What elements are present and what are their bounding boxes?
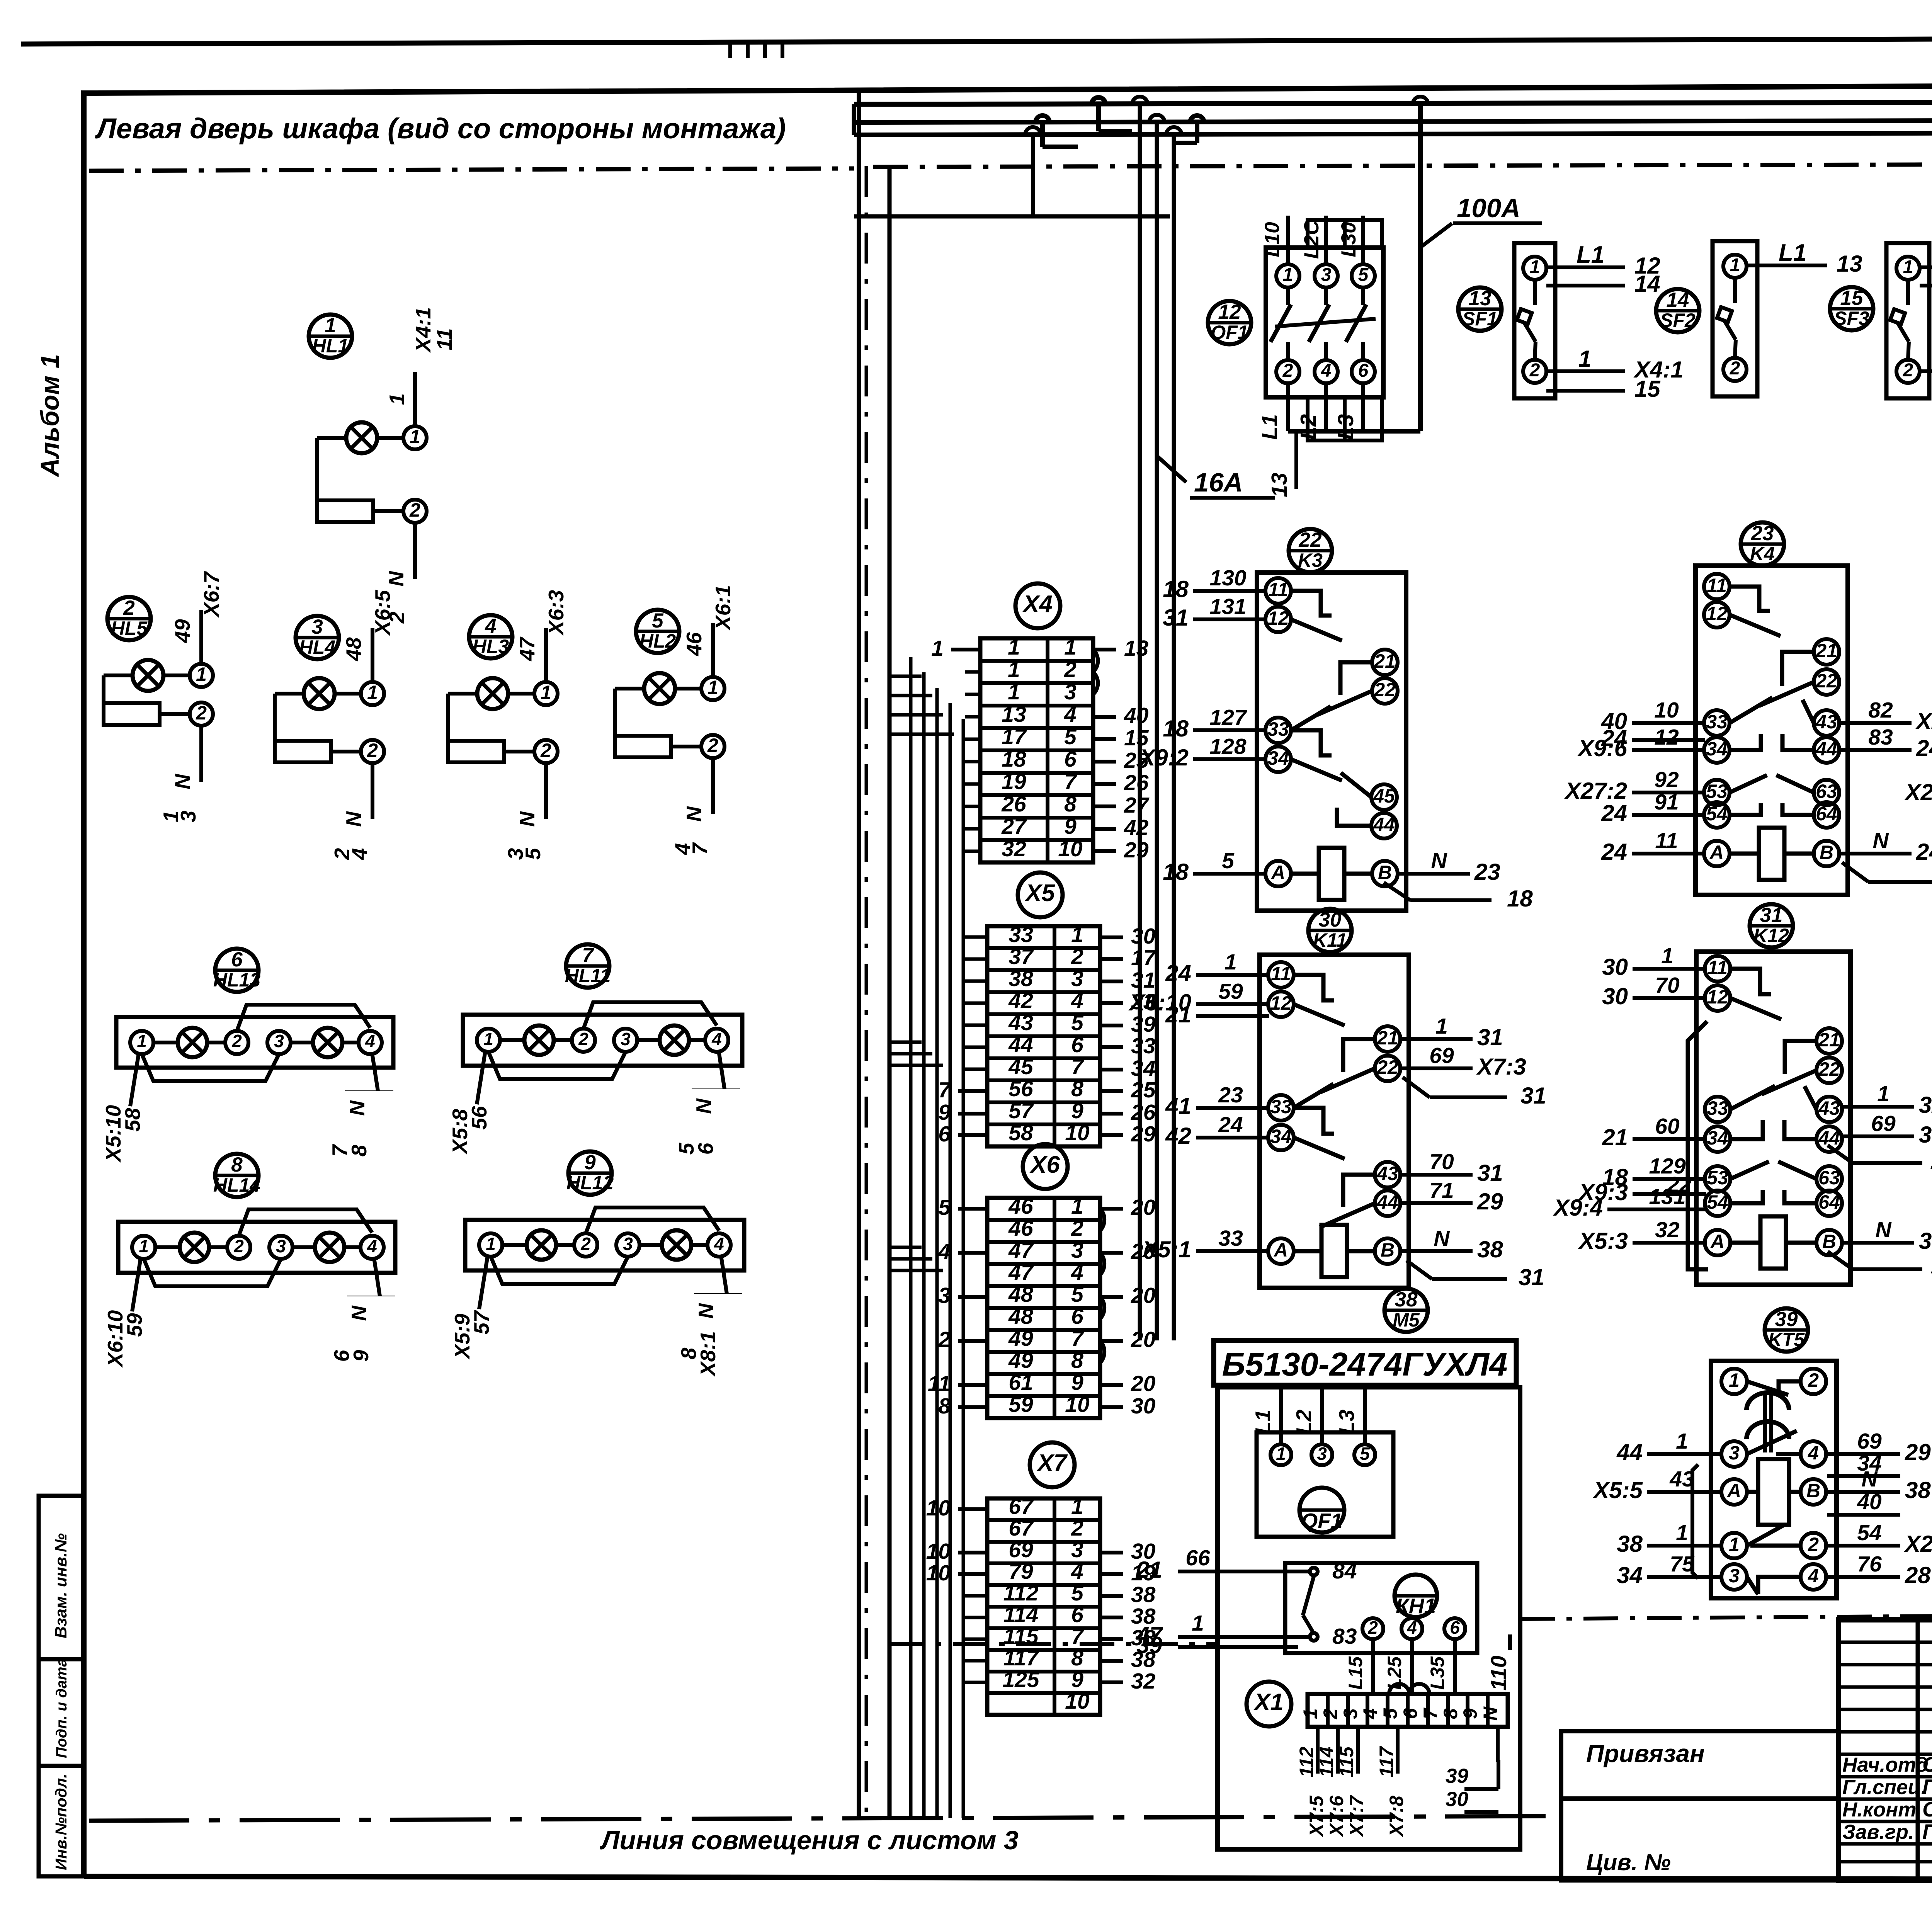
svg-text:12: 12	[1218, 301, 1241, 323]
side stamp box 3	[39, 1766, 84, 1876]
svg-text:1: 1	[541, 682, 551, 703]
svg-text:N: N	[1875, 1218, 1892, 1242]
svg-text:2: 2	[196, 702, 207, 724]
svg-text:2: 2	[231, 1031, 242, 1051]
svg-text:8: 8	[231, 1153, 243, 1176]
svg-text:44: 44	[1616, 1439, 1643, 1465]
svg-text:21: 21	[1818, 1029, 1840, 1051]
svg-text:33: 33	[1706, 711, 1728, 733]
svg-text:30: 30	[1131, 1394, 1156, 1418]
svg-text:5: 5	[1071, 1581, 1084, 1605]
svg-text:5: 5	[1358, 265, 1369, 285]
relay K12 pins 33 43	[1705, 1097, 1730, 1122]
svg-text:9: 9	[1071, 1667, 1083, 1692]
relay K12 pin A	[1705, 1230, 1730, 1255]
svg-text:125: 125	[1002, 1667, 1039, 1692]
svg-text:2: 2	[1071, 1516, 1083, 1541]
lamp HL3 wire to terminal strip	[544, 628, 548, 682]
relay K4 pins 11 12	[1704, 574, 1730, 599]
relay KT5 pins 3 4	[1721, 1441, 1747, 1467]
svg-text:69: 69	[1857, 1429, 1882, 1454]
svg-text:117: 117	[1003, 1646, 1039, 1670]
lamp block HL13 terminal 4	[359, 1031, 382, 1054]
svg-text:43: 43	[1818, 1097, 1840, 1119]
svg-text:Б5130-2474ГУХЛ4: Б5130-2474ГУХЛ4	[1222, 1346, 1508, 1383]
svg-text:L2C: L2C	[1300, 220, 1323, 259]
relay KT5 box	[1711, 1361, 1837, 1598]
svg-text:B: B	[1378, 862, 1392, 883]
bundle stubs to X5	[965, 935, 987, 939]
QF1 pole 6	[1352, 360, 1375, 383]
extra bus tap hooks left group	[1036, 116, 1049, 122]
title block attachment box	[1561, 1731, 1838, 1799]
QF1 pole 2	[1276, 360, 1299, 383]
svg-text:10: 10	[1065, 1392, 1090, 1417]
QF1 pole 1	[1276, 264, 1299, 287]
lamp block HL14 terminal 3	[269, 1236, 293, 1259]
QF1 crossbar	[1275, 319, 1376, 327]
svg-text:2: 2	[540, 740, 551, 761]
svg-text:30: 30	[1602, 954, 1628, 980]
svg-text:46: 46	[682, 632, 706, 656]
svg-text:48: 48	[1008, 1282, 1033, 1307]
svg-text:X6:7: X6:7	[199, 571, 223, 618]
svg-text:2: 2	[1367, 1617, 1378, 1638]
feeder wire L2	[1155, 122, 1159, 1340]
svg-text:Привязан: Привязан	[1586, 1740, 1705, 1767]
svg-text:1: 1	[1071, 1194, 1083, 1219]
svg-text:14: 14	[1634, 271, 1660, 297]
svg-text:18: 18	[1002, 747, 1026, 772]
lamp HL4 resistor	[275, 692, 304, 696]
svg-text:3: 3	[1321, 265, 1332, 285]
lamp block HL14 terminal 2	[227, 1236, 250, 1259]
svg-text:29: 29	[1905, 1439, 1931, 1465]
svg-text:X5:1: X5:1	[1141, 1236, 1191, 1262]
svg-text:X8:1: X8:1	[696, 1331, 720, 1377]
svg-text:7: 7	[688, 842, 712, 855]
svg-text:X5:5: X5:5	[1592, 1477, 1643, 1503]
relay K12 pin B	[1816, 1230, 1842, 1255]
switch SF1 pin 1	[1523, 257, 1546, 280]
lamp block HL11 left wire	[477, 1051, 485, 1104]
relay K12 pins 11 12	[1705, 956, 1730, 981]
switch SF3 top wires	[1920, 265, 1932, 269]
svg-text:54: 54	[1706, 803, 1728, 825]
svg-text:4: 4	[1808, 1442, 1819, 1464]
lamp block HL12 lamp b	[662, 1230, 691, 1260]
relay K3 coil	[1291, 872, 1319, 876]
switch SF3 designator	[1830, 287, 1873, 330]
svg-text:110: 110	[1486, 1655, 1511, 1690]
relay K4 pins 21 22	[1814, 639, 1839, 665]
unit M5 designator	[1384, 1289, 1428, 1332]
svg-text:L3: L3	[1333, 414, 1358, 440]
lamp block HL11 box	[463, 1015, 742, 1066]
svg-text:21: 21	[1136, 1557, 1162, 1583]
svg-text:4: 4	[485, 615, 496, 638]
svg-text:A: A	[1270, 862, 1285, 883]
svg-text:31: 31	[1760, 904, 1783, 927]
svg-text:5: 5	[521, 847, 545, 860]
relay K12 pins 53 63	[1705, 1166, 1730, 1192]
feeder tap hook L1	[1132, 97, 1148, 104]
lamp HL2 neutral wire	[711, 758, 715, 814]
svg-text:24: 24	[1165, 960, 1191, 986]
relay K11 pin B	[1375, 1238, 1400, 1264]
lamp HL5	[133, 660, 163, 691]
lamp HL5 designator	[107, 597, 151, 640]
svg-text:58: 58	[1009, 1121, 1033, 1145]
svg-text:8: 8	[1071, 1348, 1083, 1373]
unit M5 KH1 designator circle	[1395, 1575, 1437, 1617]
terminal strip X1 designator	[1247, 1682, 1291, 1726]
svg-text:Парамонова: Парамонова	[1922, 1820, 1932, 1844]
lamp block HL11 bottom bypass wire	[488, 1052, 626, 1079]
lamp block HL13 bottom bypass wire	[142, 1054, 279, 1081]
lamp block HL14 designator	[215, 1154, 259, 1197]
svg-text:17: 17	[1002, 724, 1027, 749]
relay K3 designator	[1289, 529, 1332, 572]
switch SF1 top wires	[1546, 265, 1625, 269]
terminal strip X4 table	[980, 638, 1093, 862]
svg-text:23: 23	[1751, 522, 1774, 545]
svg-text:QF1: QF1	[1301, 1509, 1343, 1533]
svg-text:3: 3	[1071, 966, 1083, 991]
svg-text:44: 44	[1008, 1032, 1033, 1057]
svg-text:X4: X4	[1022, 591, 1053, 617]
lamp block HL13 designator	[215, 949, 259, 992]
svg-text:26: 26	[1001, 792, 1026, 816]
svg-text:59: 59	[122, 1313, 146, 1337]
svg-text:34: 34	[1707, 1127, 1728, 1149]
svg-text:7: 7	[582, 944, 594, 967]
terminal strip X1 bottom stubs	[1316, 1727, 1320, 1774]
svg-text:1: 1	[1071, 922, 1083, 947]
svg-text:34: 34	[1131, 1056, 1155, 1081]
relay K12 designator	[1750, 904, 1793, 947]
svg-text:N: N	[342, 811, 366, 827]
svg-text:HL3: HL3	[473, 636, 509, 657]
svg-text:4: 4	[711, 1029, 722, 1049]
svg-text:N: N	[170, 774, 194, 789]
svg-text:КН1: КН1	[1396, 1594, 1436, 1618]
svg-text:2: 2	[1064, 657, 1077, 682]
terminal strip X6 right labels	[1100, 1207, 1123, 1211]
switch SF3 box	[1886, 243, 1929, 398]
svg-text:1: 1	[325, 314, 336, 337]
title block left grid rows	[1838, 1641, 1932, 1644]
svg-text:X7:3: X7:3	[1476, 1054, 1526, 1080]
relay K12 group2 contacts	[1730, 1086, 1775, 1109]
svg-text:3: 3	[1340, 1708, 1361, 1719]
bus line 3	[854, 132, 1932, 135]
relay K11 21 stub	[1399, 1037, 1473, 1041]
svg-text:4: 4	[365, 1031, 375, 1051]
svg-text:2: 2	[580, 1234, 591, 1254]
title block main outline	[1838, 1620, 1932, 1880]
svg-text:3: 3	[276, 1236, 286, 1256]
svg-text:B: B	[1806, 1480, 1820, 1502]
circuit breaker QF1 designator	[1208, 301, 1251, 344]
lamp block HL13 lamp a	[178, 1028, 207, 1057]
svg-text:1: 1	[1192, 1611, 1204, 1636]
svg-text:1: 1	[1064, 635, 1077, 660]
svg-text:1: 1	[1276, 1444, 1286, 1464]
svg-text:9: 9	[349, 1350, 373, 1362]
svg-text:X9:4: X9:4	[1553, 1195, 1603, 1221]
svg-text:34: 34	[1617, 1562, 1643, 1588]
svg-text:21: 21	[1815, 640, 1837, 662]
svg-text:N: N	[692, 1098, 716, 1114]
dash-dot separator panel	[873, 164, 1932, 167]
svg-text:L1: L1	[1257, 414, 1282, 440]
svg-text:6: 6	[1071, 1032, 1083, 1057]
svg-text:L3: L3	[1335, 1410, 1359, 1434]
svg-text:1: 1	[1225, 950, 1237, 975]
svg-text:2: 2	[1730, 358, 1740, 379]
svg-text:2: 2	[707, 735, 718, 756]
svg-text:1: 1	[1676, 1429, 1688, 1454]
QF1 pole 5	[1352, 264, 1375, 287]
svg-text:27: 27	[1001, 814, 1027, 839]
svg-text:127: 127	[1209, 705, 1247, 730]
svg-text:12: 12	[1706, 603, 1728, 624]
lamp block HL12 designator	[568, 1151, 612, 1195]
svg-text:131: 131	[1209, 594, 1246, 619]
svg-text:28: 28	[1905, 1562, 1931, 1588]
svg-text:K3: K3	[1298, 549, 1323, 571]
relay K4 pins 34 44	[1704, 737, 1730, 763]
unit M5 KH1 pole 6	[1444, 1618, 1465, 1639]
title underline dash-dot left	[89, 168, 854, 171]
svg-text:X6:1: X6:1	[711, 585, 735, 631]
svg-text:45: 45	[1373, 785, 1395, 807]
lamp block HL13 terminal 3	[267, 1031, 291, 1054]
svg-text:84: 84	[1332, 1559, 1357, 1583]
svg-text:29: 29	[1477, 1189, 1503, 1214]
lamp HL1 terminal 1	[377, 436, 402, 440]
relay K11 43 44 stubs	[1399, 1173, 1473, 1177]
relay K11 pins 43 44	[1375, 1162, 1400, 1187]
svg-text:39: 39	[1446, 1765, 1468, 1787]
svg-text:K4: K4	[1750, 543, 1775, 565]
relay K11 designator	[1308, 909, 1352, 952]
svg-text:1: 1	[483, 1029, 493, 1049]
QF1 top terminal tabs	[1308, 220, 1345, 248]
svg-text:HL11: HL11	[565, 965, 611, 986]
svg-text:22: 22	[1376, 1056, 1398, 1078]
svg-text:7: 7	[1071, 1326, 1084, 1351]
svg-text:15: 15	[1840, 287, 1864, 310]
svg-text:12: 12	[1270, 992, 1292, 1014]
door wire bundle	[909, 657, 913, 1818]
lamp HL4 wire to terminal strip	[371, 628, 374, 682]
svg-text:K12: K12	[1753, 925, 1789, 946]
relay K4 left stubs	[1632, 721, 1705, 725]
svg-text:N: N	[1431, 849, 1447, 873]
svg-text:33: 33	[1009, 922, 1033, 947]
feeder tap hook L2	[1149, 115, 1165, 122]
feeder wire 100A	[1418, 104, 1423, 431]
terminal strip X5 left stubs	[958, 1089, 987, 1093]
svg-text:13: 13	[1469, 287, 1492, 310]
svg-text:1: 1	[1729, 1534, 1740, 1555]
svg-text:31: 31	[1131, 968, 1155, 993]
svg-text:A: A	[1709, 842, 1724, 863]
lamp HL3	[477, 678, 508, 709]
relay K3 pins 33 34	[1265, 718, 1291, 743]
svg-text:N: N	[515, 811, 539, 827]
svg-text:11: 11	[1707, 575, 1727, 596]
svg-text:X7: X7	[1036, 1450, 1068, 1476]
switch SF2 pin 2	[1723, 358, 1747, 381]
svg-text:HL12: HL12	[566, 1172, 614, 1194]
lamp block HL13 terminal 2	[225, 1031, 248, 1054]
terminal strip X6 left stubs	[958, 1207, 987, 1211]
svg-text:B: B	[1820, 842, 1833, 863]
svg-text:47: 47	[515, 636, 539, 662]
svg-text:6: 6	[1450, 1617, 1460, 1638]
lamp HL1 designator	[309, 315, 352, 358]
relay K11 box	[1260, 955, 1409, 1288]
svg-text:N: N	[345, 1100, 369, 1116]
svg-text:SF2: SF2	[1660, 310, 1696, 331]
relay KT5 timer symbol	[1747, 1393, 1789, 1410]
lamp block HL13 box	[116, 1017, 393, 1068]
svg-text:3: 3	[1729, 1442, 1740, 1464]
svg-text:L1: L1	[1779, 240, 1806, 266]
svg-text:8: 8	[1064, 792, 1077, 816]
svg-text:48: 48	[342, 637, 366, 662]
unit M5 KH1 contact 83	[1310, 1633, 1318, 1641]
lamp block HL11 top bypass wire	[583, 1002, 717, 1029]
lamp block HL12 box	[465, 1220, 744, 1270]
svg-text:N: N	[347, 1305, 371, 1321]
svg-text:38: 38	[1395, 1288, 1418, 1311]
svg-text:64: 64	[1816, 803, 1837, 825]
svg-text:24: 24	[1601, 800, 1627, 826]
relay K11 pins 21 22	[1375, 1026, 1400, 1052]
relay K3 left stubs	[1193, 589, 1267, 593]
svg-text:45: 45	[1008, 1054, 1034, 1079]
svg-text:3: 3	[621, 1029, 631, 1049]
svg-text:6: 6	[231, 948, 243, 971]
svg-text:Цив. №: Цив. №	[1586, 1849, 1671, 1875]
lamp block HL14 left wire	[132, 1258, 141, 1311]
svg-text:21: 21	[1376, 1027, 1398, 1049]
lamp HL4 designator	[296, 616, 339, 659]
svg-text:Альбом 1: Альбом 1	[36, 354, 65, 478]
relay K4 box	[1696, 566, 1848, 895]
door bottom coincidence dash line	[89, 1816, 1561, 1821]
svg-text:24: 24	[1218, 1112, 1243, 1137]
svg-text:21: 21	[1602, 1124, 1628, 1150]
svg-text:SF3: SF3	[1834, 308, 1869, 329]
svg-text:L2: L2	[1296, 414, 1321, 440]
svg-text:N: N	[682, 806, 706, 822]
bus end hooks on frame top	[728, 44, 732, 58]
lamp block HL13 right wires	[372, 1053, 378, 1091]
lamp block HL12 terminal 1	[479, 1233, 502, 1257]
svg-text:1: 1	[1877, 1082, 1889, 1106]
svg-text:Левая дверь шкафа (вид со с: Левая дверь шкафа (вид со стороны монтаж…	[95, 112, 786, 145]
terminal strip X7 left stubs	[958, 1507, 987, 1511]
svg-text:59: 59	[1009, 1392, 1033, 1417]
svg-text:1: 1	[486, 1234, 496, 1254]
relay KT5 pins 3b 4b	[1721, 1564, 1747, 1590]
svg-text:2: 2	[1071, 1216, 1083, 1241]
bus left end connector	[852, 104, 856, 135]
svg-text:40: 40	[1124, 703, 1149, 728]
svg-text:5: 5	[1379, 1708, 1401, 1719]
terminal strip X6 designator	[1023, 1144, 1068, 1189]
svg-text:60: 60	[1655, 1114, 1680, 1139]
svg-text:64: 64	[1818, 1191, 1840, 1213]
svg-text:39: 39	[1131, 1012, 1156, 1037]
svg-text:1: 1	[1729, 1369, 1740, 1391]
relay K11 22 stubs	[1399, 1066, 1473, 1070]
svg-text:34: 34	[1270, 1126, 1292, 1147]
unit M5 KH1 contact 84	[1310, 1568, 1318, 1575]
lamp HL3 neutral wire	[544, 763, 548, 819]
svg-text:L1: L1	[1251, 1410, 1275, 1434]
svg-text:19: 19	[1002, 769, 1026, 794]
svg-text:56: 56	[467, 1106, 491, 1130]
svg-text:4: 4	[1064, 702, 1077, 727]
svg-text:18: 18	[1163, 716, 1189, 742]
relay K3 right stubs	[1396, 872, 1470, 876]
terminal strip X4 designator	[1015, 583, 1060, 628]
relay K3 B second stub	[1384, 883, 1410, 900]
svg-text:11: 11	[928, 1371, 951, 1396]
100A label	[1420, 223, 1452, 247]
svg-text:24: 24	[1916, 735, 1932, 761]
lamp block HL11 terminal 3	[614, 1029, 637, 1052]
unit M5 outer box	[1218, 1387, 1520, 1849]
svg-text:Инв.№подл.: Инв.№подл.	[52, 1774, 70, 1870]
lamp HL2 resistor	[615, 687, 644, 690]
svg-text:24: 24	[1930, 1148, 1932, 1174]
terminal strip X7 right labels	[1100, 1551, 1123, 1554]
svg-text:41: 41	[1165, 1093, 1191, 1119]
title block left grid verticals	[1916, 1620, 1920, 1880]
svg-text:5: 5	[1071, 1282, 1084, 1307]
svg-text:59: 59	[1218, 979, 1243, 1004]
relay K12 group3 contacts	[1730, 1162, 1769, 1179]
svg-text:42: 42	[1008, 988, 1033, 1013]
svg-text:33: 33	[1270, 1096, 1292, 1117]
svg-text:X4:1: X4:1	[411, 307, 435, 353]
lamp HL1 resistor	[317, 436, 346, 440]
svg-text:83: 83	[1868, 725, 1893, 750]
svg-text:9: 9	[1071, 1370, 1083, 1395]
relay K3 pins 45 44	[1371, 784, 1397, 810]
bus line 2	[854, 119, 1932, 122]
relay K4 group3 contacts	[1730, 775, 1767, 793]
svg-text:7: 7	[1064, 769, 1077, 794]
svg-text:69: 69	[1871, 1111, 1896, 1136]
svg-text:49: 49	[170, 619, 194, 643]
svg-text:X1: X1	[1253, 1689, 1284, 1716]
svg-text:13: 13	[1124, 636, 1149, 661]
lamp block HL14 bottom bypass wire	[144, 1259, 281, 1286]
svg-text:1: 1	[1008, 657, 1020, 682]
svg-text:1: 1	[1435, 1014, 1448, 1039]
svg-text:44: 44	[1815, 738, 1837, 760]
svg-text:5: 5	[652, 609, 664, 632]
svg-text:18: 18	[1507, 886, 1533, 912]
